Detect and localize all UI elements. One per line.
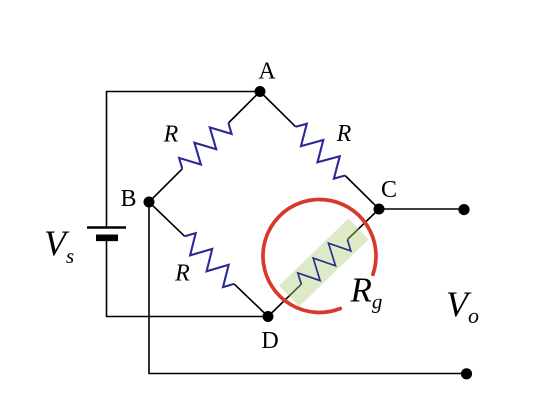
svg-text:Rg: Rg [350, 271, 383, 314]
svg-text:Vo: Vo [446, 284, 479, 328]
wire top: node A to left rail [107, 92, 261, 227]
node B [144, 197, 155, 208]
node C [374, 204, 385, 215]
svg-text:R: R [174, 261, 190, 287]
red circle around Rg [263, 199, 376, 312]
green highlight band over Rg [289, 229, 359, 296]
node D [263, 311, 274, 322]
battery Vs plate short thick [96, 235, 118, 242]
svg-text:R: R [336, 121, 352, 147]
output terminal bottom [461, 368, 472, 379]
wire node B down and right to output terminal [149, 202, 467, 374]
output terminal top [458, 204, 469, 215]
resistor R2 leads (A to C) [260, 92, 379, 210]
resistor R1 leads (B to A) [149, 92, 260, 203]
resistor R3 leads (B to D) [149, 202, 268, 317]
resistor Rg leads (D to C) [268, 209, 379, 317]
svg-text:A: A [258, 59, 276, 85]
resistor Rg zigzag (D to C) [298, 240, 351, 285]
svg-text:R: R [163, 122, 179, 148]
node A [255, 86, 266, 97]
svg-text:C: C [381, 177, 397, 203]
resistor R2 zigzag (A to C) [296, 124, 345, 179]
svg-text:D: D [261, 328, 278, 354]
battery Vs plate long [87, 226, 126, 229]
resistor R1 zigzag (B to A) [179, 123, 232, 169]
svg-text:B: B [120, 186, 136, 212]
wire node C to output terminal [379, 208, 462, 210]
wire left rail below battery to node D [107, 241, 269, 317]
resistor R3 zigzag (B to D) [185, 233, 234, 287]
svg-text:Vs: Vs [44, 223, 74, 268]
